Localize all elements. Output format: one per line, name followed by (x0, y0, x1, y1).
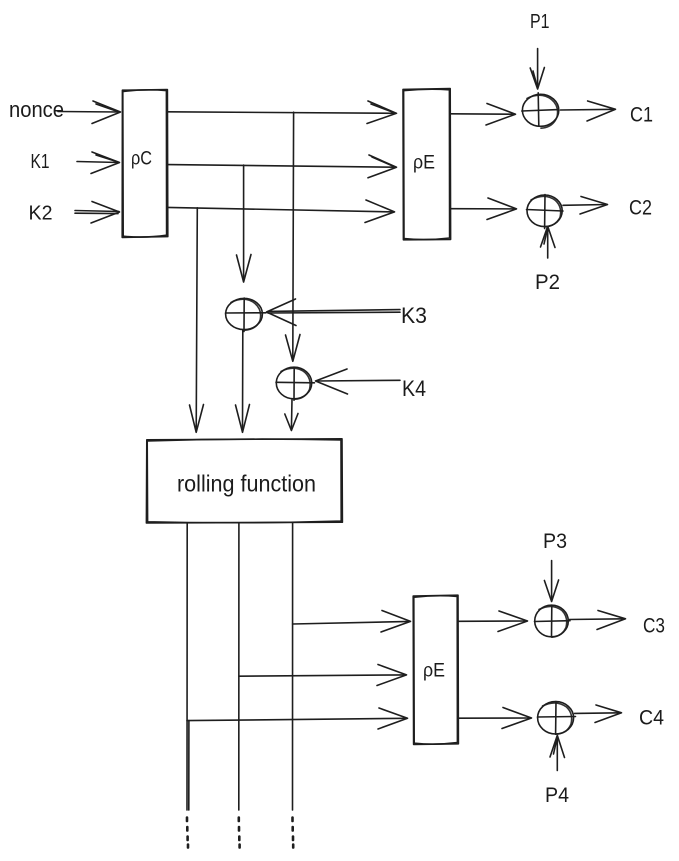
label P3 (543, 530, 567, 553)
label C3 (643, 615, 665, 638)
label rolling function (177, 471, 316, 497)
svg-text:K2: K2 (29, 203, 53, 225)
svg-text:K4: K4 (402, 376, 426, 401)
label C1 (630, 104, 653, 127)
wire xor1 to C1 (560, 101, 615, 121)
dotted continuation middle (238, 818, 241, 848)
xor node xor4 (276, 367, 315, 400)
wire P2 up arrow (541, 226, 556, 258)
svg-text:ρE: ρE (413, 153, 435, 174)
svg-text:C4: C4 (639, 707, 664, 730)
label K1 (31, 151, 50, 173)
wire P1 down arrow (530, 49, 544, 90)
label K3 (401, 303, 427, 328)
wire xor2 to C2 (563, 197, 608, 215)
xor node xor5 (535, 605, 571, 637)
label pC (131, 149, 152, 170)
wire K4 arrow into xor4 (316, 369, 401, 394)
svg-text:K3: K3 (401, 303, 427, 328)
wire vertical row1 down to xor4 (286, 112, 301, 361)
label P1 (530, 11, 550, 33)
xor node xor3 (226, 298, 267, 332)
label P2 (535, 271, 560, 294)
wire K1 input arrow (77, 152, 120, 174)
box rolling function (146, 439, 342, 523)
svg-text:K1: K1 (31, 151, 50, 173)
svg-text:ρC: ρC (131, 149, 152, 170)
wire below rolling middle (238, 523, 240, 810)
wire K3 arrow into xor3 (267, 299, 401, 326)
wire vertical row3 down to rolling function (190, 208, 204, 432)
svg-text:C1: C1 (630, 104, 653, 127)
wire vertical row2 down to xor3 (237, 165, 252, 282)
wire K2 input arrow (75, 202, 120, 224)
xor node xor2 (527, 195, 564, 229)
svg-text:nonce: nonce (9, 97, 64, 122)
label P4 (545, 784, 569, 807)
svg-text:P3: P3 (543, 530, 567, 553)
label K4 (402, 376, 426, 401)
wire branch middle line to pE bottom (239, 665, 407, 686)
svg-text:P1: P1 (530, 11, 550, 33)
wire row1 pC to pE (168, 101, 397, 124)
label pE bottom (423, 661, 445, 682)
wire nonce input arrow (58, 101, 121, 124)
svg-text:P2: P2 (535, 271, 560, 294)
svg-text:ρE: ρE (423, 661, 445, 682)
wire pE bottom to xor6 (458, 708, 531, 729)
xor node xor6 (538, 702, 576, 735)
label C2 (629, 197, 652, 220)
dotted continuation left (187, 818, 188, 848)
wire xor6 to C4 (575, 705, 622, 723)
label pE top (413, 153, 435, 174)
wire row2 pC to pE (168, 155, 397, 178)
label nonce (9, 97, 64, 122)
svg-text:rolling function: rolling function (177, 471, 316, 497)
wire xor4 down to rolling function (285, 400, 298, 431)
svg-text:C3: C3 (643, 615, 665, 638)
wire xor3 down to rolling function (236, 330, 250, 432)
wire branch right line to pE bottom (293, 611, 411, 633)
wire below rolling right (292, 523, 294, 810)
wire pE to xor1 (451, 104, 516, 126)
dotted continuation right (291, 818, 294, 848)
wire xor5 to C3 (569, 611, 626, 630)
box pC (122, 90, 168, 238)
label K2 (29, 203, 53, 225)
svg-text:P4: P4 (545, 784, 569, 807)
label C4 (639, 707, 664, 730)
wire P4 up arrow (550, 735, 565, 770)
wire below rolling left (187, 523, 189, 810)
wire branch left line to pE bottom (187, 708, 408, 729)
wire pE to xor2 (451, 198, 517, 220)
box pE top (403, 89, 451, 240)
xor node xor1 (522, 93, 559, 128)
svg-text:C2: C2 (629, 197, 652, 220)
wire pE bottom to xor5 (458, 611, 527, 632)
wire P3 down arrow (544, 561, 558, 602)
box pE bottom (413, 595, 458, 744)
wire row3 pC to pE (168, 200, 395, 223)
